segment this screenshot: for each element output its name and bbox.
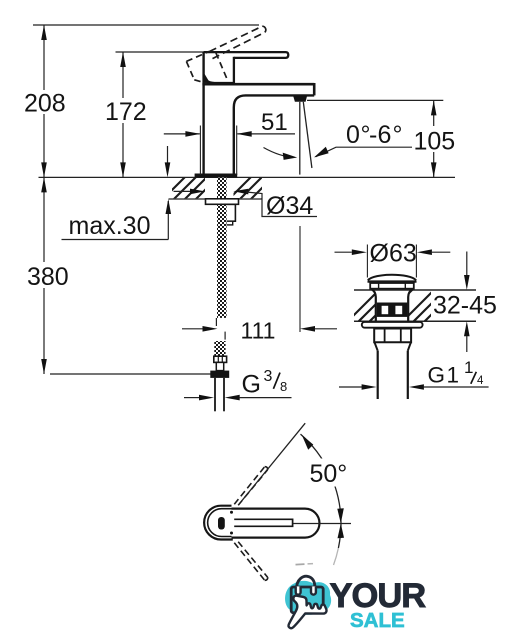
dimension G3/8 bbox=[184, 397, 200, 399]
svg-text:Ø63: Ø63 bbox=[370, 240, 417, 268]
top view: handle capsule bbox=[232, 509, 320, 538]
dimension G1 1/4 bbox=[339, 386, 362, 388]
deck top line bbox=[202, 83, 314, 86]
counter bottom line bbox=[169, 198, 263, 200]
svg-text:°: ° bbox=[393, 121, 403, 149]
arrow max30 lower (up at counter bottom) bbox=[166, 199, 172, 214]
body left edge bbox=[202, 52, 204, 175]
hose lower section bbox=[214, 341, 225, 356]
base plate bbox=[195, 174, 238, 178]
top view: dashed lever down position bbox=[234, 542, 267, 581]
popup flange washer bbox=[362, 322, 423, 328]
arrow 380 bottom bbox=[41, 359, 47, 374]
arrow max30 upper (down at counter top) bbox=[167, 146, 169, 170]
top view: outer body U bbox=[204, 506, 233, 540]
arc end gray bbox=[334, 548, 339, 565]
faucet body outline bbox=[202, 52, 314, 175]
arrow 172 top bbox=[120, 52, 126, 67]
spout underside bbox=[234, 95, 314, 174]
counter top line bbox=[39, 176, 456, 178]
svg-text:SALE: SALE bbox=[350, 609, 405, 632]
dimension Ø34 arrows bbox=[174, 190, 191, 192]
50 degree line bbox=[242, 423, 305, 500]
top view: screw dots bbox=[230, 511, 233, 514]
arc arrow at 50 line bbox=[302, 435, 314, 450]
dashed tilted grip bbox=[186, 51, 227, 83]
dimension 172 vertical line bbox=[122, 52, 124, 177]
bag body bbox=[291, 587, 323, 613]
top view: cartridge blob bbox=[218, 517, 225, 530]
svg-text:-: - bbox=[369, 121, 377, 149]
gray dash near logo bbox=[296, 563, 305, 566]
arrow 208 top bbox=[41, 25, 47, 40]
arrow 208 bottom bbox=[41, 162, 47, 177]
water stream left (0deg) bbox=[299, 102, 301, 175]
dimension 105 bbox=[307, 99, 443, 101]
spout right edge bbox=[313, 83, 316, 95]
popup slab hatching bbox=[344, 287, 459, 325]
dimension 51 bbox=[199, 126, 201, 176]
dimension 208/380 vertical line bbox=[43, 25, 45, 374]
popup valve neck bbox=[371, 289, 376, 321]
angle leaders 0-6 bbox=[264, 148, 295, 158]
popup slab top line bbox=[354, 289, 476, 291]
extension line top (overall height ref) bbox=[33, 24, 259, 26]
hose nut bbox=[210, 371, 229, 378]
logo bbox=[285, 576, 426, 632]
counter hatching left bbox=[160, 176, 230, 202]
aerator bbox=[293, 96, 307, 102]
teal blob bbox=[285, 581, 331, 615]
top view: inner body line bbox=[208, 509, 232, 537]
svg-text:Ø34: Ø34 bbox=[266, 192, 313, 220]
svg-text:1: 1 bbox=[464, 358, 473, 377]
bag handle bbox=[297, 576, 315, 590]
svg-text:G: G bbox=[242, 371, 261, 399]
svg-text:6: 6 bbox=[378, 121, 392, 149]
label 50deg bbox=[306, 459, 356, 487]
svg-text:208: 208 bbox=[24, 90, 66, 118]
svg-text:0: 0 bbox=[346, 121, 360, 149]
top view: slot bbox=[234, 519, 292, 526]
arc arrows at horizontal bbox=[337, 508, 344, 523]
grip left lower slant bbox=[204, 75, 208, 82]
cartridge base dark wedge bbox=[204, 74, 234, 86]
popup nut taper bbox=[375, 342, 411, 350]
popup cap skirt bbox=[370, 283, 414, 289]
label 380 bbox=[26, 262, 63, 288]
top view: dashed lever up position bbox=[234, 467, 267, 506]
water stream right (6deg) bbox=[303, 102, 312, 168]
dimension 111 bbox=[299, 226, 301, 332]
popup waste: Ø63 dimension bbox=[335, 251, 352, 253]
hose tail pipe bbox=[214, 378, 216, 411]
svg-text:32-45: 32-45 bbox=[433, 292, 497, 320]
lever grip front edge bbox=[233, 57, 235, 84]
svg-text:105: 105 bbox=[414, 128, 456, 156]
svg-text:51: 51 bbox=[261, 109, 288, 136]
bottom reference line (380 bottom) bbox=[50, 373, 213, 375]
dashed raised lever (side view) bbox=[209, 26, 264, 58]
dimension 32-45 bbox=[466, 252, 468, 277]
mounting shank (threaded, through counter) bbox=[217, 178, 227, 318]
popup slab bottom line bbox=[354, 320, 476, 322]
svg-text:3: 3 bbox=[264, 368, 273, 385]
dashed lever tip cap bbox=[262, 26, 266, 32]
svg-text:50°: 50° bbox=[310, 460, 348, 488]
svg-text:8: 8 bbox=[280, 379, 287, 394]
extension line handle top (172 ref) bbox=[116, 51, 210, 53]
mounting flange below counter bbox=[206, 199, 239, 205]
svg-text:380: 380 bbox=[27, 263, 69, 291]
hose collar bbox=[214, 356, 227, 362]
hose break nub left bbox=[215, 318, 217, 326]
svg-text:111: 111 bbox=[241, 318, 276, 344]
label 172 bbox=[104, 98, 147, 123]
label 105 bbox=[412, 126, 456, 152]
hose break nub right bbox=[224, 332, 226, 340]
hose neck bbox=[216, 362, 223, 370]
svg-text:max.30: max.30 bbox=[69, 212, 151, 240]
popup cap dome bbox=[368, 275, 416, 281]
svg-text:172: 172 bbox=[105, 98, 147, 126]
bag handle notches bbox=[296, 586, 301, 594]
popup window band bbox=[377, 303, 408, 317]
counter hatching right bbox=[226, 176, 285, 202]
50 degree arc bbox=[301, 434, 341, 548]
fixing stud right bbox=[225, 204, 235, 221]
label 208 bbox=[26, 90, 65, 114]
arrow 380 top bbox=[41, 177, 47, 192]
hand bbox=[289, 596, 327, 629]
svg-text:G1: G1 bbox=[428, 362, 461, 387]
svg-text:4: 4 bbox=[477, 375, 484, 387]
popup tail pipe bbox=[377, 351, 379, 399]
top view: center line bbox=[293, 523, 351, 525]
arrow 172 bottom bbox=[120, 162, 126, 177]
popup nut bbox=[374, 329, 411, 343]
lever bar top bbox=[204, 52, 289, 58]
